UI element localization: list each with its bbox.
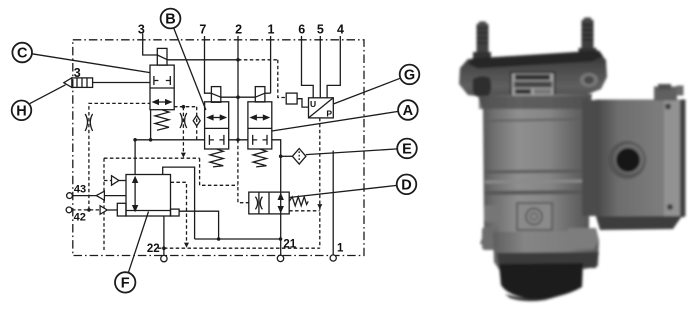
svg-text:4: 4: [337, 23, 344, 37]
svg-text:3: 3: [74, 66, 81, 80]
svg-text:F: F: [121, 276, 130, 292]
svg-text:E: E: [402, 142, 412, 158]
svg-text:7: 7: [199, 23, 206, 37]
svg-text:C: C: [17, 46, 28, 62]
svg-text:43: 43: [74, 184, 86, 196]
svg-text:3: 3: [138, 23, 145, 37]
svg-text:1: 1: [268, 23, 275, 37]
svg-text:B: B: [165, 12, 175, 28]
svg-text:42: 42: [74, 211, 86, 223]
svg-text:6: 6: [298, 23, 305, 37]
svg-text:U: U: [310, 99, 316, 109]
svg-text:22: 22: [147, 243, 160, 255]
svg-text:2: 2: [235, 23, 242, 37]
svg-text:G: G: [404, 68, 415, 84]
svg-text:A: A: [403, 103, 414, 119]
svg-text:1: 1: [337, 243, 344, 255]
svg-text:D: D: [401, 177, 411, 193]
svg-text:H: H: [16, 103, 26, 119]
svg-text:21: 21: [283, 238, 296, 250]
svg-text:P: P: [326, 109, 332, 119]
svg-text:5: 5: [317, 23, 324, 37]
